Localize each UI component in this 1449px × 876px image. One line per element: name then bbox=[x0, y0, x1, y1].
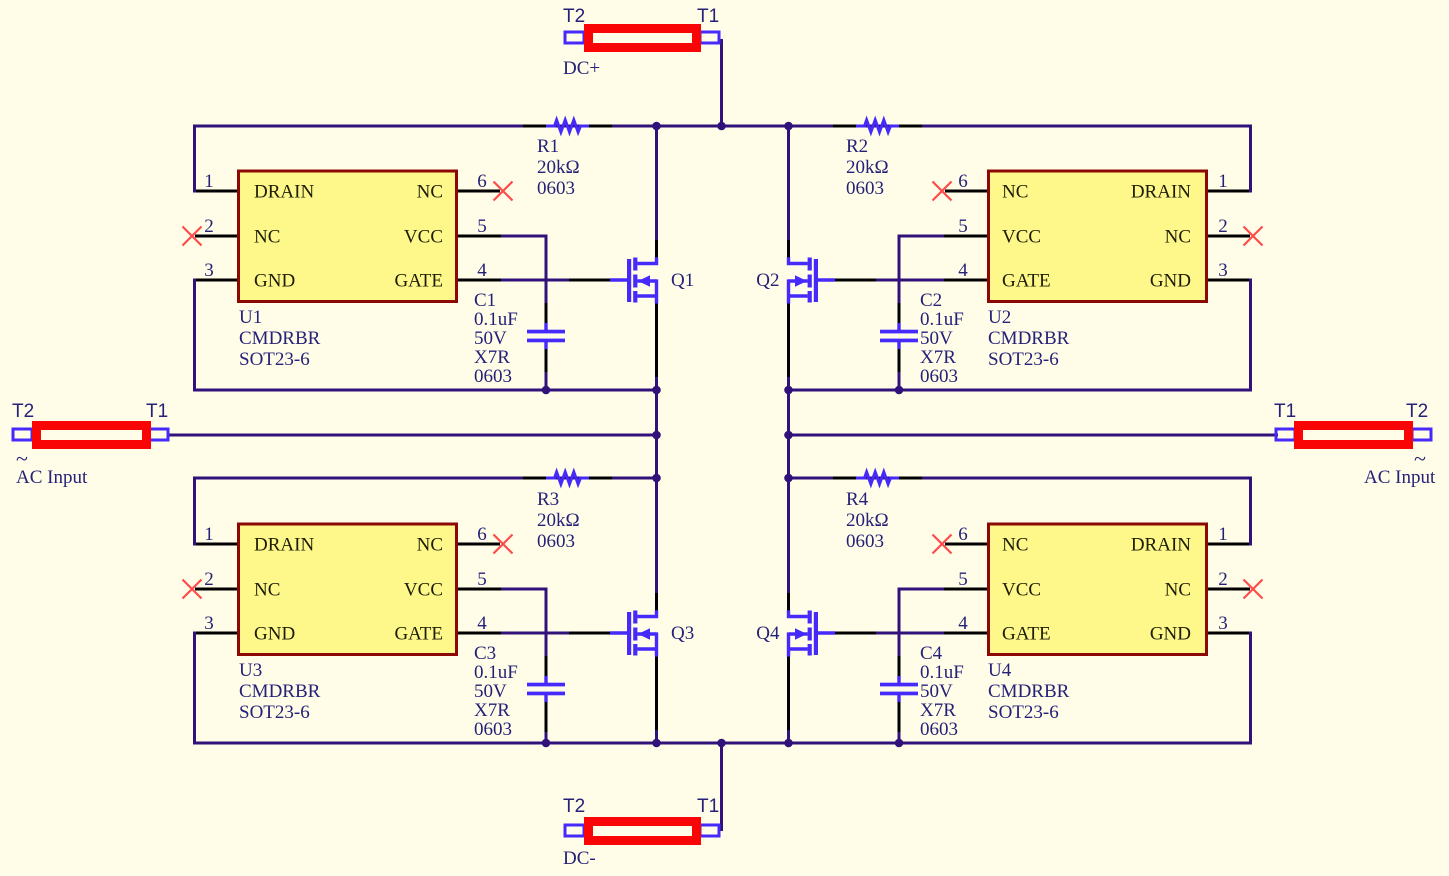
svg-text:NC: NC bbox=[254, 580, 280, 601]
C1 top lead bbox=[545, 303, 548, 324]
Q2 drain lead bbox=[787, 240, 790, 258]
svg-text:5: 5 bbox=[958, 569, 968, 590]
svg-text:4: 4 bbox=[958, 260, 968, 281]
R3 left lead bbox=[523, 477, 546, 480]
svg-text:Q1: Q1 bbox=[671, 270, 694, 291]
svg-text:0603: 0603 bbox=[474, 719, 512, 740]
svg-text:0.1uF: 0.1uF bbox=[920, 662, 964, 683]
svg-text:GATE: GATE bbox=[394, 271, 443, 292]
wire: U3 gate wire bbox=[457, 632, 613, 635]
svg-text:SOT23-6: SOT23-6 bbox=[988, 702, 1059, 723]
svg-text:Q3: Q3 bbox=[671, 623, 694, 644]
transistor Q3 bbox=[610, 610, 657, 656]
svg-text:SOT23-6: SOT23-6 bbox=[988, 349, 1059, 370]
junction AC rail left bbox=[652, 431, 661, 440]
svg-text:T1: T1 bbox=[1274, 401, 1296, 422]
Q3 gate lead bbox=[569, 632, 611, 635]
svg-text:T2: T2 bbox=[1406, 401, 1428, 422]
svg-text:SOT23-6: SOT23-6 bbox=[239, 702, 310, 723]
wire: U1 pin3 drop to mid rail bbox=[195, 280, 238, 392]
svg-text:X7R: X7R bbox=[920, 700, 956, 721]
svg-text:X7R: X7R bbox=[474, 700, 510, 721]
svg-text:GATE: GATE bbox=[394, 624, 443, 645]
wire: DC- terminal riser bbox=[720, 742, 723, 832]
U2 pin 4 lead bbox=[944, 279, 987, 282]
no-connect X U1 pin2 bbox=[183, 227, 202, 246]
no-connect X U4 pin6 bbox=[933, 535, 952, 554]
wire: AC input right rail bbox=[787, 434, 1278, 437]
terminal AC left pad T2 bbox=[13, 429, 32, 440]
Q2 source lead bbox=[787, 304, 790, 378]
U4 pin 3 lead bbox=[1208, 632, 1249, 635]
svg-text:0603: 0603 bbox=[846, 178, 884, 199]
terminal DC- pad T2 bbox=[565, 825, 584, 836]
capacitor C3 bbox=[527, 676, 565, 702]
wire: U3 pin1 riser bbox=[195, 477, 238, 545]
svg-text:3: 3 bbox=[204, 260, 214, 281]
svg-text:1: 1 bbox=[1218, 171, 1228, 192]
junction bottom rail right bbox=[784, 739, 793, 748]
svg-text:Q2: Q2 bbox=[756, 270, 779, 291]
C4 top lead bbox=[898, 656, 901, 677]
wire: U3 pin3 drop to bottom rail bbox=[195, 633, 238, 745]
terminal DC- pad T1 bbox=[700, 825, 719, 836]
C2 bottom lead bbox=[898, 348, 901, 372]
junction C2 mid rail bbox=[895, 386, 904, 395]
wire: lower-right R4 rail bbox=[787, 477, 1252, 480]
wire: DC+ terminal drop bbox=[720, 39, 723, 128]
terminal DC+ body bbox=[589, 29, 697, 48]
svg-text:3: 3 bbox=[1218, 260, 1228, 281]
svg-text:NC: NC bbox=[417, 182, 443, 203]
svg-text:NC: NC bbox=[417, 535, 443, 556]
svg-text:U3: U3 bbox=[239, 660, 262, 681]
Q4 gate lead bbox=[834, 632, 876, 635]
svg-text:20kΩ: 20kΩ bbox=[537, 157, 580, 178]
svg-text:T2: T2 bbox=[563, 796, 585, 817]
svg-text:4: 4 bbox=[477, 260, 487, 281]
wire: left center vertical upper bbox=[655, 125, 658, 243]
svg-text:DC+: DC+ bbox=[563, 58, 600, 79]
svg-text:NC: NC bbox=[1165, 580, 1191, 601]
svg-text:0603: 0603 bbox=[537, 178, 575, 199]
svg-text:50V: 50V bbox=[474, 328, 507, 349]
terminal AC left body bbox=[37, 426, 147, 445]
junction C4 bottom rail bbox=[895, 739, 904, 748]
svg-text:0603: 0603 bbox=[920, 719, 958, 740]
svg-text:NC: NC bbox=[254, 227, 280, 248]
wire: U4 gate wire bbox=[833, 632, 989, 635]
Q3 drain lead bbox=[655, 593, 658, 611]
svg-text:CMDRBR: CMDRBR bbox=[988, 681, 1070, 702]
svg-text:NC: NC bbox=[1002, 182, 1028, 203]
svg-text:5: 5 bbox=[958, 216, 968, 237]
no-connect X U2 pin2 bbox=[1244, 227, 1263, 246]
U4 pin 5 lead bbox=[944, 588, 987, 591]
svg-text:6: 6 bbox=[958, 524, 968, 545]
svg-text:VCC: VCC bbox=[404, 580, 443, 601]
svg-text:X7R: X7R bbox=[474, 347, 510, 368]
capacitor C2 bbox=[880, 323, 918, 349]
svg-text:CMDRBR: CMDRBR bbox=[988, 328, 1070, 349]
svg-text:DRAIN: DRAIN bbox=[254, 535, 314, 556]
wire: U1 VCC to C1 branch bbox=[495, 236, 546, 329]
IC U3 body bbox=[239, 524, 457, 655]
svg-text:1: 1 bbox=[204, 171, 214, 192]
svg-text:50V: 50V bbox=[920, 328, 953, 349]
U2 pin 1 lead bbox=[1208, 190, 1249, 193]
svg-text:DRAIN: DRAIN bbox=[1131, 182, 1191, 203]
junction R4 rail right bbox=[784, 474, 793, 483]
terminal DC+ pad T2 bbox=[565, 32, 584, 43]
wire: left center vertical lower bbox=[655, 728, 658, 745]
svg-text:GATE: GATE bbox=[1002, 271, 1051, 292]
transistor Q4 bbox=[789, 610, 836, 656]
U3 pin 6 lead bbox=[458, 543, 500, 546]
terminal AC left pad T1 bbox=[149, 429, 168, 440]
svg-text:R4: R4 bbox=[846, 489, 869, 510]
terminal AC right body bbox=[1299, 426, 1409, 445]
R3 right lead bbox=[589, 477, 612, 480]
U1 pin 6 lead bbox=[458, 190, 500, 193]
wire: U1 gate wire bbox=[457, 279, 613, 282]
svg-text:1: 1 bbox=[204, 524, 214, 545]
svg-text:T1: T1 bbox=[697, 6, 719, 27]
svg-text:U4: U4 bbox=[988, 660, 1012, 681]
svg-text:AC Input: AC Input bbox=[16, 467, 88, 488]
C3 bottom lead bbox=[545, 701, 548, 732]
svg-text:1: 1 bbox=[1218, 524, 1228, 545]
svg-text:0603: 0603 bbox=[920, 366, 958, 387]
C3 top lead bbox=[545, 656, 548, 677]
junction mid rail left bbox=[652, 386, 661, 395]
R1 right lead bbox=[589, 125, 612, 128]
U3 pin 5 lead bbox=[458, 588, 501, 591]
terminal DC+ pad T1 bbox=[700, 32, 719, 43]
svg-text:C3: C3 bbox=[474, 643, 496, 664]
svg-text:2: 2 bbox=[1218, 569, 1228, 590]
junction mid rail right bbox=[784, 386, 793, 395]
wire: right center vertical middle bbox=[787, 375, 790, 595]
svg-text:AC Input: AC Input bbox=[1364, 467, 1436, 488]
svg-text:C1: C1 bbox=[474, 290, 496, 311]
R4 right lead bbox=[899, 477, 922, 480]
junction top rail right bbox=[784, 122, 793, 131]
svg-text:X7R: X7R bbox=[920, 347, 956, 368]
wire: U2 VCC to C2 branch bbox=[899, 236, 950, 329]
wire: AC input left rail bbox=[167, 434, 658, 437]
svg-text:Q4: Q4 bbox=[756, 623, 780, 644]
no-connect X U3 pin2 bbox=[183, 580, 202, 599]
svg-text:CMDRBR: CMDRBR bbox=[239, 328, 321, 349]
transistor Q1 bbox=[610, 257, 657, 303]
wire: right center vertical upper bbox=[787, 125, 790, 243]
wire: U2 pin1 riser bbox=[1208, 125, 1251, 192]
U1 pin 1 lead bbox=[196, 190, 237, 193]
svg-text:NC: NC bbox=[1165, 227, 1191, 248]
svg-text:6: 6 bbox=[477, 524, 487, 545]
IC U4 body bbox=[989, 524, 1207, 655]
svg-text:VCC: VCC bbox=[1002, 580, 1041, 601]
svg-text:4: 4 bbox=[477, 613, 487, 634]
svg-text:2: 2 bbox=[204, 216, 214, 237]
junction top rail left bbox=[652, 122, 661, 131]
wire: lower-left R3 rail bbox=[193, 477, 658, 480]
Q1 source lead bbox=[655, 304, 658, 378]
Q3 source lead bbox=[655, 657, 658, 731]
svg-text:T2: T2 bbox=[563, 6, 585, 27]
U3 pin 3 lead bbox=[196, 632, 237, 635]
svg-text:GND: GND bbox=[254, 271, 295, 292]
junction R3 rail left bbox=[652, 474, 661, 483]
svg-text:DRAIN: DRAIN bbox=[1131, 535, 1191, 556]
svg-text:T1: T1 bbox=[697, 796, 719, 817]
svg-text:R2: R2 bbox=[846, 136, 868, 157]
svg-text:20kΩ: 20kΩ bbox=[537, 510, 580, 531]
C2 top lead bbox=[898, 303, 901, 324]
junction top rail center bbox=[717, 122, 726, 131]
svg-text:0.1uF: 0.1uF bbox=[474, 662, 518, 683]
U1 pin 3 lead bbox=[196, 279, 237, 282]
U1 pin 5 lead bbox=[458, 235, 501, 238]
svg-text:5: 5 bbox=[477, 569, 487, 590]
IC U2 body bbox=[989, 171, 1207, 302]
R2 right lead bbox=[899, 125, 922, 128]
svg-text:U1: U1 bbox=[239, 307, 262, 328]
junction AC rail right bbox=[784, 431, 793, 440]
svg-text:C2: C2 bbox=[920, 290, 942, 311]
svg-text:20kΩ: 20kΩ bbox=[846, 157, 889, 178]
wire: U3 VCC to C3 branch bbox=[495, 589, 546, 682]
wire: U4 pin3 drop to bottom rail bbox=[1208, 633, 1251, 745]
junction C1 mid rail bbox=[542, 386, 551, 395]
svg-text:U2: U2 bbox=[988, 307, 1011, 328]
svg-text:2: 2 bbox=[1218, 216, 1228, 237]
svg-text:0.1uF: 0.1uF bbox=[474, 309, 518, 330]
U4 pin 6 lead bbox=[945, 543, 987, 546]
U1 pin 4 lead bbox=[458, 279, 501, 282]
svg-text:3: 3 bbox=[1218, 613, 1228, 634]
svg-text:50V: 50V bbox=[920, 681, 953, 702]
Q4 source lead bbox=[787, 657, 790, 731]
svg-text:0603: 0603 bbox=[474, 366, 512, 387]
svg-text:T2: T2 bbox=[12, 401, 34, 422]
U1 pin 2 lead bbox=[195, 235, 237, 238]
svg-text:GATE: GATE bbox=[1002, 624, 1051, 645]
svg-text:GND: GND bbox=[254, 624, 295, 645]
svg-text:T1: T1 bbox=[146, 401, 168, 422]
svg-text:SOT23-6: SOT23-6 bbox=[239, 349, 310, 370]
U2 pin 5 lead bbox=[944, 235, 987, 238]
resistor R2 bbox=[856, 120, 899, 132]
Q1 drain lead bbox=[655, 240, 658, 258]
wire: right center vertical lower bbox=[787, 728, 790, 745]
transistor Q2 bbox=[789, 257, 836, 303]
svg-text:2: 2 bbox=[204, 569, 214, 590]
svg-text:3: 3 bbox=[204, 613, 214, 634]
svg-text:R1: R1 bbox=[537, 136, 559, 157]
Q4 drain lead bbox=[787, 593, 790, 611]
R2 left lead bbox=[833, 125, 856, 128]
svg-text:20kΩ: 20kΩ bbox=[846, 510, 889, 531]
no-connect X U1 pin6 bbox=[494, 182, 513, 201]
no-connect X U4 pin2 bbox=[1244, 580, 1263, 599]
resistor R1 bbox=[546, 120, 589, 132]
resistor R4 bbox=[856, 472, 899, 484]
terminal AC right pad T2 bbox=[1412, 429, 1431, 440]
svg-text:CMDRBR: CMDRBR bbox=[239, 681, 321, 702]
svg-text:6: 6 bbox=[958, 171, 968, 192]
wire: U2 pin3 drop to mid rail bbox=[1208, 280, 1251, 392]
svg-text:0603: 0603 bbox=[537, 531, 575, 552]
U4 pin 2 lead bbox=[1208, 588, 1250, 591]
no-connect X U2 pin6 bbox=[933, 182, 952, 201]
U2 pin 6 lead bbox=[945, 190, 987, 193]
svg-text:DC-: DC- bbox=[563, 848, 596, 869]
C4 bottom lead bbox=[898, 701, 901, 732]
wire: U2 gate wire bbox=[833, 279, 989, 282]
svg-text:GND: GND bbox=[1150, 271, 1191, 292]
wire: left mid rail bbox=[193, 389, 658, 392]
svg-text:C4: C4 bbox=[920, 643, 943, 664]
capacitor C4 bbox=[880, 676, 918, 702]
capacitor C1 bbox=[527, 323, 565, 349]
wire: bottom rail DC- net bbox=[193, 742, 1252, 745]
wire: top rail DC+ net bbox=[193, 125, 1252, 128]
U3 pin 2 lead bbox=[195, 588, 237, 591]
svg-text:VCC: VCC bbox=[1002, 227, 1041, 248]
svg-text:6: 6 bbox=[477, 171, 487, 192]
svg-text:0603: 0603 bbox=[846, 531, 884, 552]
svg-text:R3: R3 bbox=[537, 489, 559, 510]
wire: U1 pin1 riser bbox=[195, 125, 238, 192]
svg-text:DRAIN: DRAIN bbox=[254, 182, 314, 203]
svg-text:VCC: VCC bbox=[404, 227, 443, 248]
junction C3 bottom rail bbox=[542, 739, 551, 748]
wire: U4 VCC to C4 branch bbox=[899, 589, 950, 682]
R4 left lead bbox=[833, 477, 856, 480]
no-connect X U3 pin6 bbox=[494, 535, 513, 554]
junction bottom rail center bbox=[717, 739, 726, 748]
U2 pin 2 lead bbox=[1208, 235, 1250, 238]
svg-text:NC: NC bbox=[1002, 535, 1028, 556]
U3 pin 4 lead bbox=[458, 632, 501, 635]
wire: left center vertical middle bbox=[655, 375, 658, 595]
U4 pin 1 lead bbox=[1208, 543, 1249, 546]
Q1 gate lead bbox=[569, 279, 611, 282]
wire: right mid rail bbox=[787, 389, 1252, 392]
terminal AC right pad T1 bbox=[1276, 429, 1295, 440]
svg-text:5: 5 bbox=[477, 216, 487, 237]
U4 pin 4 lead bbox=[944, 632, 987, 635]
svg-text:50V: 50V bbox=[474, 681, 507, 702]
U2 pin 3 lead bbox=[1208, 279, 1249, 282]
resistor R3 bbox=[546, 472, 589, 484]
wire: U4 pin1 riser bbox=[1208, 477, 1251, 545]
C1 bottom lead bbox=[545, 348, 548, 372]
junction bottom rail left bbox=[652, 739, 661, 748]
R1 left lead bbox=[523, 125, 546, 128]
svg-text:4: 4 bbox=[958, 613, 968, 634]
terminal DC- body bbox=[589, 822, 697, 841]
U3 pin 1 lead bbox=[196, 543, 237, 546]
IC U1 body bbox=[239, 171, 457, 302]
svg-text:0.1uF: 0.1uF bbox=[920, 309, 964, 330]
svg-text:GND: GND bbox=[1150, 624, 1191, 645]
Q2 gate lead bbox=[834, 279, 876, 282]
